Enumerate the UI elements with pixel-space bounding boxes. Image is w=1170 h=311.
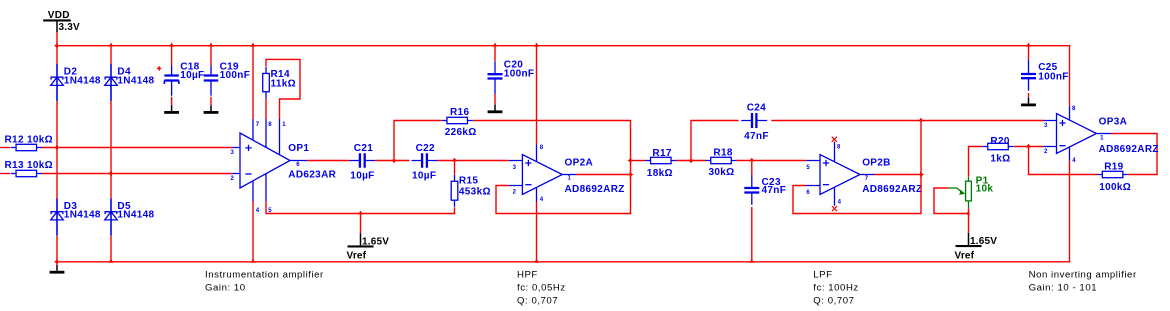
wire OP1 output to C21 xyxy=(307,160,350,162)
wire R13 to OP1 - xyxy=(42,173,232,175)
wire R15 top xyxy=(454,161,456,175)
resistor R19 xyxy=(1097,174,1129,176)
svg-text:8: 8 xyxy=(540,145,544,151)
wire rail to C18 xyxy=(171,46,173,66)
op-amp OP1 bottom pin stubs xyxy=(253,174,266,202)
op-amp OP1 output stub xyxy=(290,160,307,162)
wire col x57 rail to D2 xyxy=(56,46,58,64)
svg-text:1N4148: 1N4148 xyxy=(117,75,154,86)
junction Vref1 at pin5 line xyxy=(358,211,363,215)
junction OP2A pin8 at rail xyxy=(534,43,539,47)
svg-text:C24: C24 xyxy=(747,103,766,114)
wire col x111 D5 to bottom rail xyxy=(110,236,112,262)
svg-text:C21: C21 xyxy=(354,143,373,154)
wire P1 bottom to Vref xyxy=(968,208,970,232)
svg-text:5: 5 xyxy=(806,165,810,171)
svg-text:R20: R20 xyxy=(990,136,1009,147)
wire C23 top xyxy=(751,161,753,176)
svg-text:C22: C22 xyxy=(416,143,435,154)
svg-text:47nF: 47nF xyxy=(762,185,787,196)
ground symbol C20 xyxy=(494,105,496,111)
ground symbol bottom-left xyxy=(56,265,58,271)
wire VDD top rail xyxy=(57,46,1070,107)
junction C23 at signal line xyxy=(749,158,754,162)
no-connect cross OP2B pin8 xyxy=(832,137,837,142)
wire IN2 left xyxy=(0,173,10,175)
op-amp OP3A output stub xyxy=(1097,133,1112,135)
junction OP2A out node at R17 line xyxy=(628,158,632,163)
svg-text:11kΩ: 11kΩ xyxy=(271,78,296,89)
wire rail to C19 xyxy=(210,46,212,66)
svg-text:R15: R15 xyxy=(459,176,478,187)
svg-text:Gain: 10: Gain: 10 xyxy=(205,283,246,294)
ground symbol C18 xyxy=(171,105,173,111)
svg-text:R19: R19 xyxy=(1104,161,1123,172)
wire C24 to OP3A + line xyxy=(771,120,1043,122)
op-amp OP1 minus sign xyxy=(245,173,251,175)
svg-text:6: 6 xyxy=(296,162,300,168)
svg-text:fc: 100Hz: fc: 100Hz xyxy=(813,283,858,294)
junction OP2B output xyxy=(920,172,924,177)
svg-text:1.65V: 1.65V xyxy=(970,236,997,247)
svg-text:100nF: 100nF xyxy=(220,70,251,81)
wire R19 feedback left xyxy=(1029,147,1098,175)
op-amp OP1 input stubs xyxy=(232,148,240,174)
op-amp OP3A input stubs xyxy=(1044,121,1057,147)
svg-text:Instrumentation amplifier: Instrumentation amplifier xyxy=(205,270,324,281)
svg-text:LPF: LPF xyxy=(813,269,832,280)
wire OP2A pin4 to bottom rail xyxy=(536,202,538,262)
ground symbol C25 xyxy=(1028,98,1030,104)
svg-text:3: 3 xyxy=(231,150,235,156)
op-amp OP2A input stubs xyxy=(509,161,523,186)
wire OP2A out node to R17 xyxy=(631,160,646,162)
svg-text:1N4148: 1N4148 xyxy=(64,210,101,221)
junction OP2B out at OP3A+ line xyxy=(918,118,923,122)
wire GND bottom rail xyxy=(57,161,1070,262)
wire R20 to OP3A - xyxy=(1014,146,1044,148)
wire R14 loop to OP1 pin1 xyxy=(266,59,300,119)
svg-text:AD8692ARZ: AD8692ARZ xyxy=(565,184,625,195)
svg-text:Q: 0,707: Q: 0,707 xyxy=(813,296,854,307)
svg-text:10µF: 10µF xyxy=(180,70,204,81)
supply symbol Vref 1.65V (left) xyxy=(360,233,362,245)
wire C20 to ground xyxy=(494,94,496,105)
svg-text:1: 1 xyxy=(568,176,572,182)
svg-text:30kΩ: 30kΩ xyxy=(709,167,735,178)
svg-text:8: 8 xyxy=(268,122,272,128)
svg-text:R18: R18 xyxy=(713,147,732,158)
op-amp OP2B output stub xyxy=(860,174,874,176)
op-amp OP1 triangle xyxy=(240,133,290,188)
svg-text:100nF: 100nF xyxy=(1038,71,1069,82)
svg-text:Q: 0,707: Q: 0,707 xyxy=(517,296,558,307)
svg-text:4: 4 xyxy=(540,197,544,203)
svg-text:10k: 10k xyxy=(976,184,994,195)
diode D2 xyxy=(56,64,58,100)
diode D2 lead xyxy=(56,64,58,101)
wire R20 line xyxy=(969,147,983,177)
svg-text:2: 2 xyxy=(513,189,517,195)
svg-text:R17: R17 xyxy=(652,148,671,159)
op-amp OP1 top pin stubs xyxy=(253,119,280,155)
wire P1 wiper loop xyxy=(934,188,969,214)
wire OP2B output xyxy=(874,174,921,176)
wire col x111 D4 to D5 xyxy=(110,101,112,199)
wire C19 to ground xyxy=(210,97,212,105)
ground symbol C19 xyxy=(210,105,212,111)
svg-text:1.65V: 1.65V xyxy=(362,237,389,248)
svg-text:Non inverting amplifier: Non inverting amplifier xyxy=(1029,269,1137,280)
wire col x57 D2 to D3 xyxy=(56,101,58,199)
svg-text:R13 10kΩ: R13 10kΩ xyxy=(5,160,53,171)
svg-text:4: 4 xyxy=(1072,158,1076,164)
wire R19 to OP3A output xyxy=(1111,134,1157,175)
wire R18 to OP2B + xyxy=(736,160,806,162)
wire bottom rail to ground xyxy=(56,262,58,265)
svg-text:6: 6 xyxy=(806,190,810,196)
svg-text:100nF: 100nF xyxy=(504,68,535,79)
op-amp OP3A xyxy=(1057,114,1097,154)
svg-text:8: 8 xyxy=(1072,106,1076,112)
svg-text:OP3A: OP3A xyxy=(1099,117,1128,128)
svg-text:fc: 0,05Hz: fc: 0,05Hz xyxy=(517,283,566,294)
svg-text:R12 10kΩ: R12 10kΩ xyxy=(5,134,53,145)
svg-text:HPF: HPF xyxy=(517,269,538,280)
wire C22 to OP2A + xyxy=(438,160,509,162)
svg-text:OP2A: OP2A xyxy=(565,157,594,168)
op-amp OP1 plus sign xyxy=(245,145,251,151)
svg-text:1: 1 xyxy=(1100,136,1104,142)
wire C21 to node A xyxy=(375,160,409,162)
resistor R15 xyxy=(454,175,456,207)
wire node B to C24 line xyxy=(691,121,739,161)
svg-text:1: 1 xyxy=(282,122,286,128)
svg-text:47nF: 47nF xyxy=(744,131,769,142)
diode D3 lead xyxy=(56,199,58,236)
svg-text:8: 8 xyxy=(837,145,841,151)
capacitor C19 xyxy=(210,66,212,96)
plus mark C18 xyxy=(157,66,161,70)
wire OP2A pin8 to rail xyxy=(536,46,538,145)
svg-text:7: 7 xyxy=(256,122,260,128)
svg-text:3: 3 xyxy=(513,165,517,171)
wire C25 to ground xyxy=(1028,93,1030,98)
svg-text:4: 4 xyxy=(838,199,842,205)
diode D5 xyxy=(110,199,112,235)
junction OP1 pin4 at bottom rail xyxy=(250,259,255,263)
resistor R16 xyxy=(441,120,473,122)
wire OP1 pin5 to Vref line xyxy=(266,202,455,214)
junction C25 at rail xyxy=(1026,43,1031,47)
wire OP1 pin4 to bottom rail xyxy=(252,202,254,262)
wire IN1 left xyxy=(0,147,10,149)
svg-text:10µF: 10µF xyxy=(412,170,436,181)
junction OP1 pin7 at rail xyxy=(250,43,255,47)
op-amp OP2A output stub xyxy=(562,174,576,176)
junction C18 at rail xyxy=(169,43,174,47)
svg-text:3: 3 xyxy=(1044,123,1048,129)
resistor R12 xyxy=(11,147,43,149)
svg-text:4: 4 xyxy=(256,208,260,214)
svg-text:OP1: OP1 xyxy=(288,143,309,154)
capacitor C21 xyxy=(349,160,375,162)
diode D4 xyxy=(110,64,112,100)
junction P1 wiper loop xyxy=(966,211,970,216)
junction D5 col at bottom rail xyxy=(108,259,113,263)
svg-text:1N4148: 1N4148 xyxy=(117,210,154,221)
svg-text:AD8692ARZ: AD8692ARZ xyxy=(1099,144,1159,155)
junction ground at bottom rail xyxy=(54,259,58,264)
polarized plate hooks C18 xyxy=(164,81,179,85)
op-amp OP2B power stubs xyxy=(834,142,836,206)
junction C23 at bottom rail xyxy=(749,259,754,263)
svg-text:R16: R16 xyxy=(450,107,469,118)
svg-text:Gain: 10 - 101: Gain: 10 - 101 xyxy=(1029,283,1098,294)
wire OP2A output xyxy=(576,174,631,176)
resistor R13 xyxy=(11,173,43,175)
svg-text:2: 2 xyxy=(231,176,235,182)
svg-text:Vref: Vref xyxy=(955,250,975,261)
svg-text:1N4148: 1N4148 xyxy=(64,75,101,86)
junction OP2A pin4 at bottom rail xyxy=(534,259,539,263)
wire R12 to OP1 + xyxy=(42,147,232,149)
diode D3 xyxy=(56,199,58,235)
wire R16 to OP2A output node xyxy=(473,121,630,214)
wire node A to R16 line xyxy=(394,121,441,161)
resistor R18 xyxy=(705,160,737,162)
svg-text:1kΩ: 1kΩ xyxy=(990,153,1010,164)
svg-text:226kΩ: 226kΩ xyxy=(445,127,477,138)
wire C23 to bottom rail xyxy=(751,207,753,262)
junction C20 at rail xyxy=(492,43,497,47)
wire col x111 rail to D4 xyxy=(110,46,112,64)
junction OP2A output xyxy=(630,172,634,177)
wire OP2B feedback xyxy=(793,121,921,214)
diode D4 lead xyxy=(110,64,112,101)
svg-text:100kΩ: 100kΩ xyxy=(1099,182,1131,193)
junction D4 at rail xyxy=(108,43,113,47)
capacitor C20 xyxy=(494,61,496,94)
junction R19 at R20 line xyxy=(1026,144,1031,148)
wire rail to C20 xyxy=(494,46,496,61)
svg-text:Vref: Vref xyxy=(347,250,367,261)
wire rail to C25 xyxy=(1028,46,1030,60)
capacitor C18 xyxy=(171,66,173,96)
wire VDD symbol to rail xyxy=(56,32,58,46)
resistor R20 xyxy=(982,146,1014,148)
svg-text:AD623AR: AD623AR xyxy=(288,170,336,181)
junction D2 at IN1 line xyxy=(54,145,58,150)
junction node A at signal line xyxy=(391,160,396,164)
capacitor C22 xyxy=(412,160,438,162)
wire Vref1 drop xyxy=(360,214,362,234)
op-amp OP2B input stubs xyxy=(806,161,820,186)
junction node B at signal line xyxy=(688,160,693,164)
capacitor C25 xyxy=(1028,60,1030,91)
potentiometer P1 xyxy=(968,177,970,209)
wire col x57 D3 to bottom rail xyxy=(56,236,58,262)
supply symbol Vref 1.65V (right) xyxy=(968,233,970,245)
svg-text:7: 7 xyxy=(865,176,869,182)
wire OP1 pin7 to rail xyxy=(252,46,254,119)
wire C18 to ground xyxy=(171,97,173,105)
junction R15 at signal line xyxy=(452,158,457,162)
resistor R14 xyxy=(265,67,267,98)
junction D5 at IN2 line xyxy=(108,171,112,176)
op-amp OP3A power stubs xyxy=(1069,107,1071,161)
diode D5 lead xyxy=(110,199,112,236)
op-amp OP2A power stubs xyxy=(536,145,538,202)
junction VDD at rail xyxy=(54,43,58,48)
op-amp OP2A xyxy=(522,155,562,195)
svg-text:2: 2 xyxy=(1044,149,1048,155)
svg-text:10µF: 10µF xyxy=(350,170,374,181)
op-amp OP2B xyxy=(820,155,860,195)
wire R17 to R18 xyxy=(676,160,706,162)
capacitor C23 xyxy=(751,175,753,205)
svg-text:3.3V: 3.3V xyxy=(59,22,81,33)
svg-text:AD8692ARZ: AD8692ARZ xyxy=(862,184,922,195)
svg-text:OP2B: OP2B xyxy=(862,157,891,168)
svg-text:18kΩ: 18kΩ xyxy=(647,168,673,179)
wire OP1 pin8 to R14 xyxy=(265,98,267,119)
resistor R17 xyxy=(645,160,677,162)
capacitor C24 xyxy=(741,120,767,122)
no-connect cross OP2B pin4 xyxy=(832,206,837,211)
svg-text:453kΩ: 453kΩ xyxy=(459,187,491,198)
junction C19 at rail xyxy=(208,43,213,47)
